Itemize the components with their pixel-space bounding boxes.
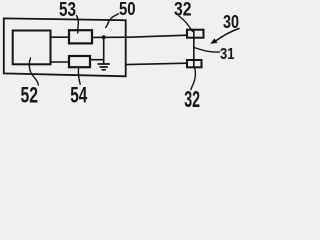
leader 54	[78, 67, 80, 84]
wire node vertical	[103, 37, 105, 63]
resistor block 54	[69, 56, 90, 67]
outer box 50	[4, 18, 126, 76]
node dot	[102, 35, 106, 39]
svg-text:53: 53	[59, 0, 76, 21]
ground	[98, 64, 109, 70]
wire 52 to 53	[51, 36, 70, 38]
svg-text:52: 52	[21, 82, 39, 107]
svg-text:32: 32	[184, 86, 200, 108]
svg-text:54: 54	[70, 82, 87, 107]
wire 53 to connector 32 top	[92, 35, 187, 37]
svg-text:50: 50	[119, 0, 136, 19]
svg-text:30: 30	[223, 12, 239, 32]
inner box 52	[13, 31, 51, 65]
arrow 30 shaft	[214, 29, 239, 43]
arrow 30 head	[210, 38, 217, 44]
connector 32 top	[187, 30, 204, 38]
leader 52	[29, 58, 38, 85]
bus line 31	[193, 31, 195, 68]
leader 32 bottom	[191, 67, 195, 89]
wire outer box to connector 32 bottom	[126, 63, 187, 64]
leader 50	[106, 14, 119, 28]
resistor block 53	[69, 30, 92, 43]
wire 54 to node	[90, 59, 104, 61]
connector 32 bottom	[187, 60, 202, 67]
svg-text:32: 32	[174, 0, 192, 21]
leader 53	[77, 16, 79, 34]
leader 32 top	[179, 16, 192, 31]
leader 31	[194, 48, 220, 53]
wire 52 to 54	[51, 61, 70, 63]
svg-text:31: 31	[220, 46, 235, 63]
